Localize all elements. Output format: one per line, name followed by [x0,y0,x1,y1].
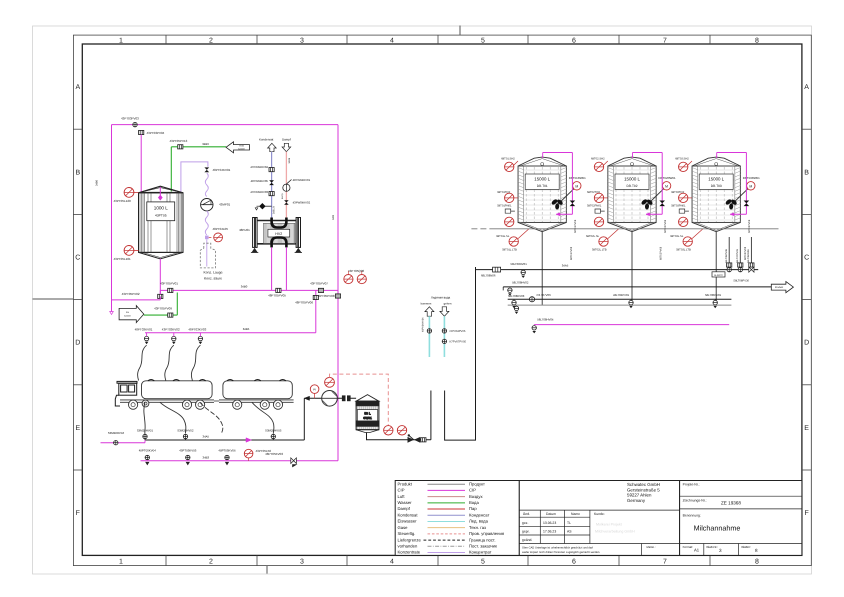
svg-text:CIPV04PV05: CIPV04PV05 [450,330,466,333]
trailer wheels [233,400,283,409]
svg-text:geänd.: geänd. [522,538,532,542]
svg-text:43PT05PV13: 43PT05PV13 [170,139,188,143]
agitator motor DRT03RW01 [733,176,760,203]
svg-text:Molkerei Projekt: Molkerei Projekt [596,523,622,527]
svg-text:53M28HV03: 53M28HV03 [265,429,281,433]
valve 43TW04HV03 [269,192,274,196]
wire product return leg [430,391,432,440]
gauge PI [310,385,319,394]
svg-text:48PT05KV04: 48PT05KV04 [139,448,157,452]
svg-text:Пров. управления: Пров. управления [469,531,504,536]
tank B1 1000L 43PT05 body [139,186,184,259]
svg-text:68T02.SH2: 68T02.SH2 [591,158,605,161]
svg-text:15000 L: 15000 L [708,177,724,182]
svg-text:50 L: 50 L [364,411,370,415]
svg-text:M: M [749,184,752,188]
svg-text:43TW04HV04: 43TW04HV04 [250,165,268,169]
wire pump suction [304,397,356,399]
svg-text:D: D [75,340,80,347]
instrument DRT02 LSL below [599,237,608,246]
svg-text:Gase: Gase [398,525,409,530]
svg-text:E: E [75,425,80,432]
svg-text:Лед. вода: Лед. вода [469,519,489,524]
valve 43PT05PV02 [158,294,163,298]
svg-text:E: E [804,425,809,432]
wire CIP return magenta [160,289,338,291]
valve 43PT03KV02 with hose [162,327,180,380]
instrument DRT02 LI low [594,217,603,226]
HX label box HV2 [268,229,290,237]
arrow block Eiswasser [119,306,144,323]
svg-text:3: 3 [300,559,304,566]
svg-text:DR.T03: DR.T03 [711,184,722,188]
svg-text:vorhanden: vorhanden [398,544,418,549]
arrow block Heisswasser [226,142,250,153]
wire CIP feed DRT01 magenta [543,153,573,216]
wire HX outlet magenta left [271,247,273,290]
svg-text:58LT08HV01: 58LT08HV01 [511,262,528,266]
wire HX outlet magenta right [285,247,287,290]
svg-text:68T01PV08: 68T01PV08 [570,246,573,260]
pump 53MP01 milk [322,391,338,407]
svg-text:34B1/B: 34B1/B [273,206,276,214]
wire CIP top header magenta [112,124,339,126]
valve 43PT05PV01 [168,288,173,292]
agitator motor DRT02RW01 [649,176,676,203]
revision table [519,510,679,543]
svg-text:2: 2 [209,559,213,566]
svg-text:43PT05L120: 43PT05L120 [114,199,132,203]
wire product drop DRT03 [715,232,717,305]
svg-text:HV2: HV2 [275,232,282,236]
svg-text:Name: Name [571,512,580,516]
butterfly valve outlet [408,437,414,443]
svg-text:43PT05PV02: 43PT05PV02 [122,292,140,296]
valve 43PW04KV02 [284,200,289,205]
valve C3LT07V06 [529,297,534,302]
valve 53M28HV04 inlet stub [101,442,146,444]
valve 48PT03KV03 with hose [188,327,206,380]
wire eiswasser cyan gehen [443,316,445,357]
svg-text:C: C [804,255,809,262]
tank DR.T02 15000L [608,157,656,232]
svg-text:Ледяная вода: Ледяная вода [431,296,451,300]
svg-text:68LT08N06: 68LT08N06 [481,274,496,278]
wire into canister lilac [206,239,208,266]
svg-text:7: 7 [663,559,667,566]
svg-text:CIP: CIP [398,488,405,493]
valve on eiswasser kommen [427,329,431,333]
svg-text:A: A [75,84,80,91]
svg-text:7: 7 [663,38,667,45]
svg-text:4: 4 [390,559,394,566]
valve 43PT05PV06 branch [315,290,317,332]
svg-text:DRT01RW01: DRT01RW01 [569,176,586,180]
instrument DRT03 LI low [679,217,688,226]
wire drain header magenta [112,299,161,301]
svg-text:Техн. газ: Техн. газ [469,525,486,530]
svg-text:34A5: 34A5 [203,434,210,438]
riser stubs manifold1 [725,237,754,267]
svg-text:Projekt-Nr.:: Projekt-Nr.: [683,483,700,487]
wire riser to pump [303,398,305,440]
svg-text:wasser: wasser [238,147,245,150]
svg-text:58T01L.LTB: 58T01L.LTB [502,249,517,252]
valve 48TW04KV05 [269,180,274,185]
svg-text:wasser: wasser [124,315,131,318]
canister Konz-Lauge dashed [200,243,215,268]
svg-text:43PT05PV07: 43PT05PV07 [310,282,328,286]
svg-text:Пост. заказчик: Пост. заказчик [469,544,497,549]
instrument 43PT05L50 [244,449,253,458]
svg-text:43PT05PV08: 43PT05PV08 [317,294,335,298]
svg-text:Produkt: Produkt [398,481,413,486]
instrument 43PT05L120 [124,188,134,198]
valve on gray line [514,306,518,314]
fitting 68LT08N06 [493,267,501,272]
svg-text:58T03L.LTB: 58T03L.LTB [676,249,691,252]
svg-text:gepr.: gepr. [522,530,530,534]
tank B1 wall hatch [140,193,182,253]
svg-text:TL: TL [567,521,571,525]
wire Konzentrate lilac [181,162,208,193]
outer border frame [73,35,811,566]
svg-text:Germany: Germany [627,498,646,503]
arrow Dampf down [282,143,291,151]
valve K7PV07V05 [442,339,446,343]
svg-text:gez.: gez. [522,521,528,525]
svg-text:Воздух: Воздух [469,494,483,499]
wire milk collection line [145,439,304,441]
svg-text:15000 L: 15000 L [534,177,550,182]
svg-text:Dampf: Dampf [282,137,291,141]
svg-text:Steuerltg.: Steuerltg. [398,531,416,536]
svg-text:6: 6 [572,559,576,566]
svg-text:1: 1 [119,559,123,566]
svg-text:DRT03RW01: DRT03RW01 [743,176,760,180]
valve 43PT05PV13 [178,145,183,149]
svg-text:Format:: Format: [683,545,694,549]
svg-text:43PT05L101: 43PT05L101 [114,257,132,261]
svg-text:K7PV07PV05: K7PV07PV05 [450,340,467,343]
fitting on outlet [421,438,426,442]
svg-text:43PT03PV04: 43PT03PV04 [147,131,165,135]
svg-text:48PU01: 48PU01 [239,228,250,232]
svg-text:2: 2 [209,38,213,45]
svg-text:48PT03KV03: 48PT03KV03 [188,327,206,331]
svg-text:1000 L: 1000 L [154,205,168,210]
svg-text:48PT05KV06: 48PT05KV06 [218,448,236,452]
valve CIP DRT03 black [744,201,750,207]
svg-text:weder kopiert noch dritten Per: weder kopiert noch dritten Personen zugä… [522,551,600,554]
tank DR.T03 15000L [692,157,740,232]
svg-text:AS: AS [567,530,572,534]
disclaimer row [641,544,643,556]
wire product manifold 2 outfeed [503,286,771,288]
valve 43TW04HV04 [269,168,274,172]
tank DR.T01 15000L [518,157,566,232]
svg-text:Kv2,5: Kv2,5 [281,193,284,199]
svg-text:8: 8 [755,548,758,553]
wire CIP lower header magenta [141,460,339,462]
svg-text:48PT04KV01: 48PT04KV01 [213,168,231,172]
svg-text:43TW04HV03: 43TW04HV03 [250,190,268,194]
svg-text:Benennung:: Benennung: [683,514,701,518]
HX bottom U pipe [272,238,287,248]
agitator propeller DRT03 [725,198,738,209]
valve 43PT05PV09 [168,313,173,317]
node dosing suction [205,236,209,240]
wire tanker CIP header magenta [145,332,316,334]
HX plate hatch [265,223,295,243]
svg-text:Kunde:: Kunde: [594,512,605,516]
svg-text:Änd.: Änd. [523,512,530,516]
truck cab [115,381,137,406]
instrument DRT01 LSL below [509,237,518,246]
svg-text:DR.T01: DR.T01 [537,184,548,188]
svg-text:Über CAD Unterlage ist urheber: Über CAD Unterlage ist urheberrechtlich … [522,546,593,550]
instrument LSH [397,426,406,435]
steam trap diamond [262,205,271,207]
wire CIP left riser magenta [111,125,113,312]
svg-text:Eiswasser: Eiswasser [398,519,418,524]
instrument DRT01 LI low [505,217,514,226]
svg-text:Zeichnungs-Nr.:: Zeichnungs-Nr.: [683,499,707,503]
svg-text:58LT08HV04: 58LT08HV04 [537,318,554,322]
svg-text:68T02L.SL: 68T02L.SL [586,235,600,238]
svg-text:8: 8 [755,559,759,566]
truck wheels [129,400,205,409]
svg-text:5: 5 [481,38,485,45]
svg-text:Konz. säure: Konz. säure [204,277,222,281]
svg-text:ZE 19368: ZE 19368 [721,500,741,505]
wire existing line gray manifold 4 [508,304,732,306]
valve 48PT05KV04 [139,448,157,465]
svg-text:58T03PN01: 58T03PN01 [671,205,686,208]
svg-text:34B6: 34B6 [96,179,99,186]
valve CIP DRT02 black [659,201,665,207]
instrument FIQ on pump [325,377,335,387]
heat exchanger HV2 48PU01 [253,218,301,248]
svg-text:48PV04HV04: 48PV04HV04 [422,317,425,332]
svg-text:58LT08PV08: 58LT08PV08 [725,249,728,263]
svg-text:B: B [75,169,80,176]
centering marks [33,26,461,574]
wire dosing coil upper lilac [205,173,208,197]
svg-text:4: 4 [390,38,394,45]
svg-text:DRT02RW01: DRT02RW01 [659,176,676,180]
svg-text:48PT05PV06: 48PT05PV06 [295,300,313,304]
svg-text:Konz. Lauge: Konz. Lauge [203,270,222,274]
svg-text:Liefergrenze: Liefergrenze [398,537,422,542]
svg-text:C3.T07V06: C3.T07V06 [537,293,552,297]
agitator motor DRT01RW01 [559,176,586,203]
company address [627,482,660,503]
svg-text:Blatt-Nr.:: Blatt-Nr.: [707,545,719,549]
svg-text:48PT03KV01: 48PT03KV01 [135,327,153,331]
svg-text:68T01.SH2: 68T01.SH2 [501,158,515,161]
svg-text:Datum: Datum [546,512,556,516]
valve 43PT03PV03 [133,122,137,126]
svg-text:15000 L: 15000 L [624,177,640,182]
svg-text:A: A [804,84,809,91]
svg-text:DR.T02: DR.T02 [627,184,638,188]
row ticks [73,129,811,470]
valve 43PT05PV07 [318,288,323,292]
wire CIP supply manifold magenta [534,324,729,326]
svg-text:43PT05: 43PT05 [155,214,167,218]
svg-text:Blätter:: Blätter: [742,545,752,549]
svg-text:Konzentrate: Konzentrate [398,550,421,555]
svg-text:5: 5 [481,559,485,566]
svg-text:A1: A1 [694,548,700,553]
svg-text:Milchverarbeitung GmbH: Milchverarbeitung GmbH [595,530,635,534]
svg-text:58LT07PV03: 58LT07PV03 [736,249,739,263]
svg-text:58LT08HV03: 58LT08HV03 [508,294,525,298]
agitator propeller DRT01 [551,198,564,209]
valve 48PT05KV06 [218,448,236,465]
svg-text:43MP01: 43MP01 [219,203,231,207]
svg-text:43PT03PV03: 43PT03PV03 [121,117,139,121]
manifold 1 right end assembly [712,267,754,283]
wire product drop DRT02 [631,232,633,305]
svg-text:M: M [665,184,668,188]
valve 48PT03KV01 with hose [135,327,153,380]
hose truck outlet 1 [160,402,186,433]
trailer chassis [219,399,294,401]
title block right box [680,481,802,556]
svg-text:68T03L.SL: 68T03L.SL [670,235,684,238]
instrument 43PT05L101 [124,246,134,256]
agitator propeller DRT02 [640,198,653,209]
valve 48PT05PV05 [276,288,281,292]
svg-text:Конденсат: Конденсат [469,512,489,517]
truck tank barrel 1 [142,381,213,399]
svg-text:58T03PV06: 58T03PV06 [748,219,751,233]
tank B1 spray nozzle magenta [159,187,161,195]
hose truck outlet 2 [200,402,223,434]
flow arrow on collection line [246,438,252,442]
svg-text:58LT08PA08: 58LT08PA08 [747,249,750,263]
svg-text:B-43/70: B-43/70 [714,274,723,277]
svg-text:43PT03KV02: 43PT03KV02 [162,327,180,331]
trailer tank barrel 2 [223,381,292,399]
valve CIP DRT01 black [570,201,576,207]
svg-text:34B8: 34B8 [288,157,291,163]
svg-text:M: M [575,184,578,188]
svg-text:53M28HV04: 53M28HV04 [108,431,124,435]
svg-text:48TW04HV01: 48TW04HV01 [293,178,311,182]
svg-text:6: 6 [572,38,576,45]
svg-text:Maßst.:: Maßst.: [647,546,656,549]
wire water green header [183,146,226,148]
legend rows [398,481,505,554]
instrument DRT03 LSL below [683,237,692,246]
svg-text:58T02PN01: 58T02PN01 [587,205,602,208]
svg-text:58LT08HV02: 58LT08HV02 [512,281,529,285]
svg-text:13.06.23: 13.06.23 [543,521,556,525]
svg-text:Пар: Пар [469,506,477,511]
column numbers [119,38,759,566]
wire dosing coil lower lilac [205,211,208,235]
valve 48TW04HV01 control [283,184,290,191]
inner border frame [82,44,802,555]
arrow eiswasser kommen up [425,307,434,316]
svg-text:58T02PV06: 58T02PV06 [664,219,667,233]
wire eiswasser feed green [144,314,178,316]
arrow eiswasser gehen down [440,307,449,316]
svg-text:43PT05KV05: 43PT05KV05 [179,448,197,452]
hose cab connection [144,402,145,436]
svg-text:Продукт: Продукт [469,481,485,486]
svg-text:34A5: 34A5 [562,263,569,267]
svg-text:34B0: 34B0 [241,285,248,289]
control line dashed red [330,374,389,426]
valve 43PT05KV05 [179,448,197,465]
wire to tank roof magenta [140,135,142,193]
legend box [395,481,519,556]
HX top U pipe [272,218,287,228]
svg-text:3: 3 [719,548,722,553]
truck chassis [120,400,214,402]
svg-text:C: C [75,255,80,262]
svg-text:17.06.23: 17.06.23 [543,530,556,534]
ground line behind tanks [471,228,493,230]
svg-text:GW01: GW01 [363,416,372,420]
svg-text:43PT05PV09: 43PT05PV09 [154,307,172,311]
svg-text:48PT05KV03: 48PT05KV03 [265,452,283,456]
svg-text:68T02PV08: 68T02PV08 [660,246,663,260]
svg-text:48PT05PV05: 48PT05PV05 [268,294,286,298]
valve CIPV04PV05 [442,329,446,333]
hose trailer outlet [252,402,274,434]
svg-text:CIP: CIP [469,488,476,493]
svg-text:53M28HV01: 53M28HV01 [137,429,153,433]
wire steam salmon [285,152,287,218]
svg-text:Kondensat: Kondensat [398,512,419,517]
wire CIP-return manifold 3 [508,298,732,300]
svg-text:48TW04KV05: 48TW04KV05 [251,179,269,183]
row letters [75,84,809,517]
wire condensate blue [271,152,273,218]
svg-text:58LT08PV30: 58LT08PV30 [734,280,750,283]
svg-text:Wasser: Wasser [398,500,413,505]
arrow Kondensat up [268,143,277,151]
pump 43MP01 dosing [201,199,213,211]
wire tank B1 outlet magenta [159,259,161,294]
svg-text:48PT04L05: 48PT04L05 [213,227,229,231]
svg-text:Heiß: Heiß [239,144,244,147]
svg-text:43PT05PV01: 43PT05PV01 [160,282,178,286]
svg-text:34B5: 34B5 [243,327,250,331]
instrument LSL [384,426,393,435]
svg-text:Dampf: Dampf [398,506,411,511]
svg-text:kommen: kommen [421,302,432,306]
arrow block Produkt [771,282,793,293]
drain at left riser end [110,312,114,315]
svg-text:53M28HV02: 53M28HV02 [177,429,193,433]
svg-text:F: F [804,510,808,517]
svg-text:8: 8 [755,38,759,45]
svg-text:Milchannahme: Milchannahme [694,524,741,533]
svg-text:58T01PN01: 58T01PN01 [497,205,512,208]
svg-text:68T01L.SL: 68T01L.SL [496,235,510,238]
valve 43PT05PV08 [337,125,339,461]
svg-text:PI: PI [313,387,316,391]
svg-text:34B6: 34B6 [202,142,209,146]
svg-text:Вода: Вода [469,500,479,505]
svg-text:3: 3 [300,38,304,45]
